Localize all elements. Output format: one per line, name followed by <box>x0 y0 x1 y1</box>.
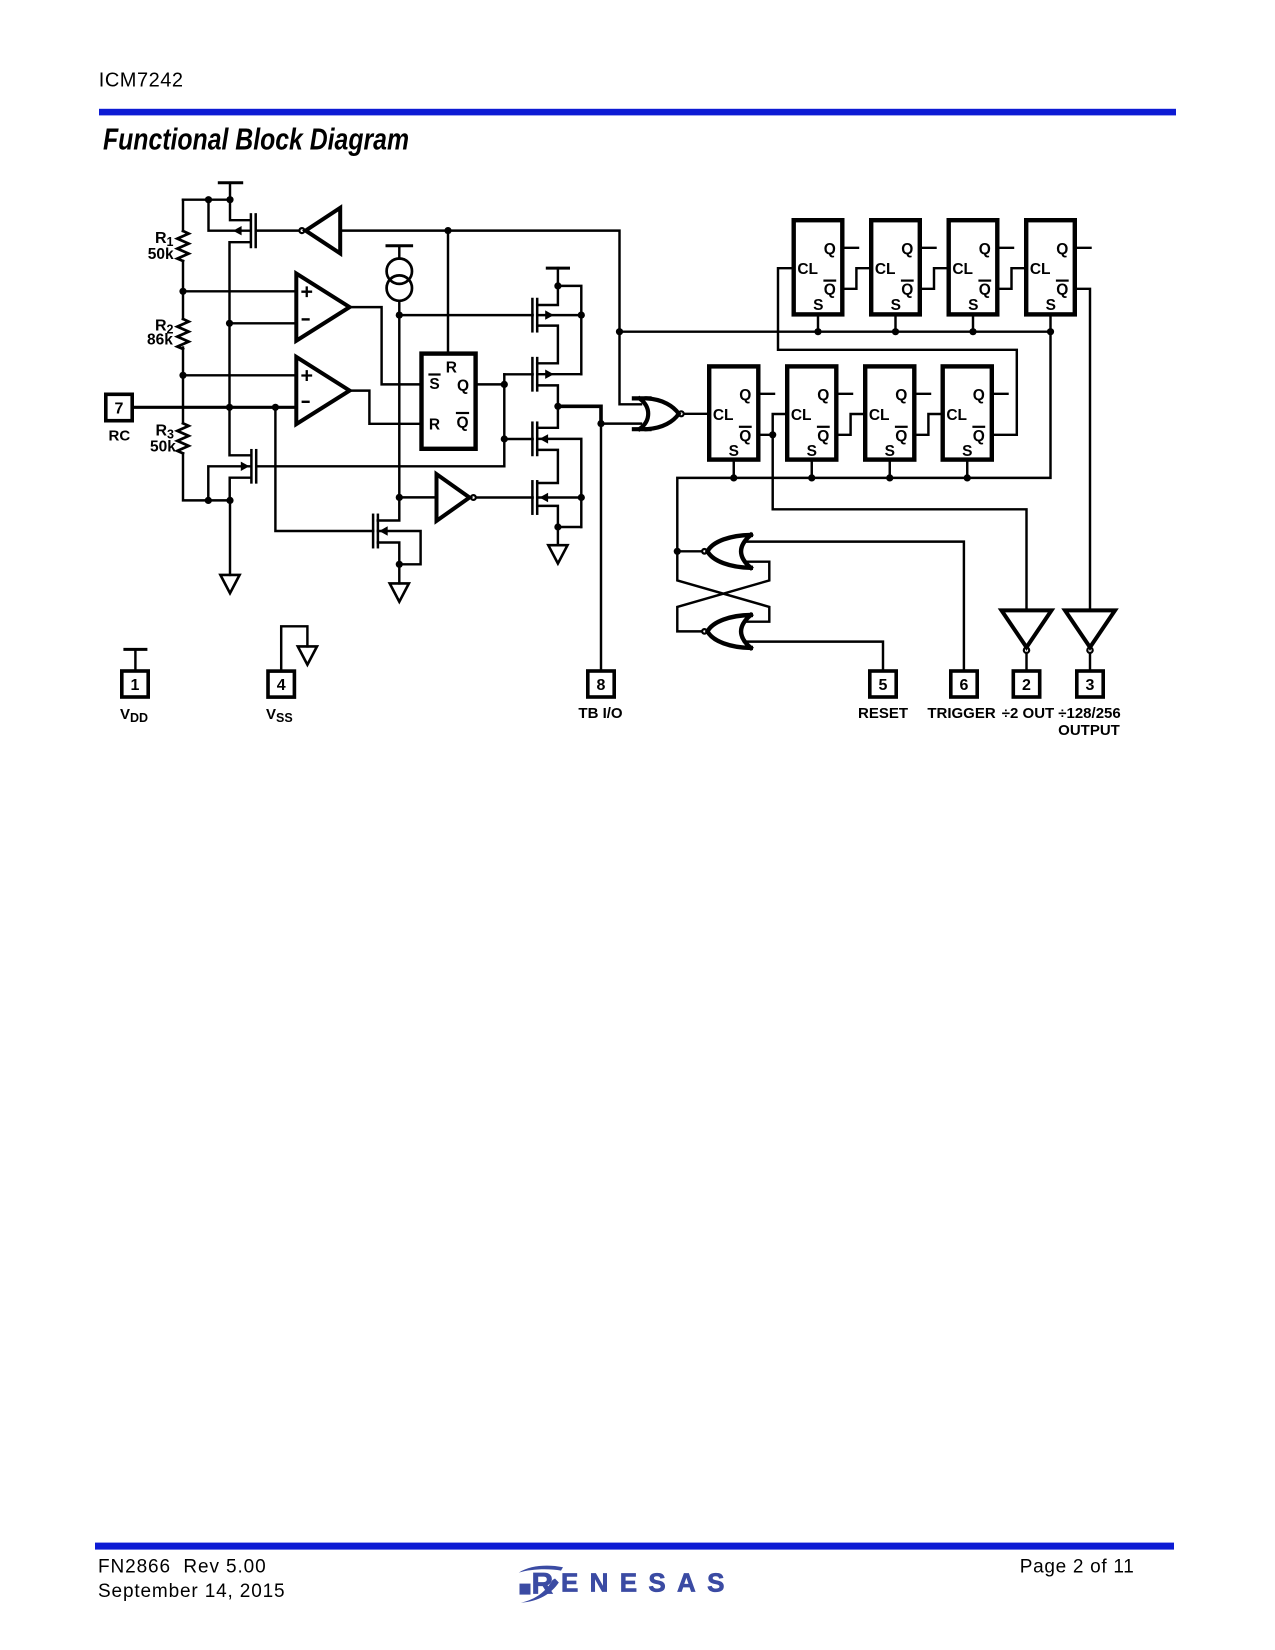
svg-text:1: 1 <box>131 677 140 694</box>
svg-text:Q: Q <box>895 387 907 404</box>
svg-text:50k: 50k <box>148 246 174 263</box>
inverter U3 body <box>437 474 470 521</box>
svg-text:RESET: RESET <box>858 705 908 722</box>
svg-text:4: 4 <box>277 677 286 694</box>
svg-text:R: R <box>429 417 440 434</box>
transistor QB bulk lead <box>537 373 581 375</box>
node RC junction at Q1 source <box>226 404 233 411</box>
svg-text:September 14, 2015: September 14, 2015 <box>98 1581 285 1602</box>
svg-text:3: 3 <box>1086 677 1095 694</box>
wire TRIGGER pin 6 to U5A input <box>746 542 964 670</box>
svg-text:DD: DD <box>130 711 148 725</box>
ground symbol G2 <box>390 583 409 601</box>
transistor Q3 channel line <box>250 450 253 482</box>
svg-text:RC: RC <box>109 428 131 445</box>
comparator U2 - symbol <box>303 401 309 403</box>
svg-text:S: S <box>885 443 895 460</box>
flip-flop FF4 (top row) box <box>1026 220 1075 314</box>
svg-text:5: 5 <box>879 677 888 694</box>
node R2-R3 junction <box>179 372 186 379</box>
wire RC node (pin7 to comparator U2 - input) <box>134 406 296 409</box>
wire U5B output cross-couple to U5A input <box>677 562 769 632</box>
supply bar V+ above output stack <box>547 268 568 286</box>
transistor Q1 drain lead <box>230 200 250 221</box>
svg-text:Q: Q <box>739 428 751 445</box>
wire FF4 Qbar to divide-by-128/256 inverter U8 <box>1077 289 1090 611</box>
svg-text:TRIGGER: TRIGGER <box>927 705 996 722</box>
wire FF2 S lead <box>894 317 896 332</box>
wire ground stem below Q3 <box>229 500 231 575</box>
wire timebase output (thick) <box>558 406 601 423</box>
supply bar V+ above current source I1 <box>387 246 412 259</box>
wire comparator U2 + input <box>183 374 296 376</box>
flip-flop FF2 (top row) Q-bar label <box>901 281 913 299</box>
svg-text:OUTPUT: OUTPUT <box>1058 722 1120 739</box>
transistor QA bulk lead <box>537 314 581 316</box>
wire U7 output to pin 2 <box>1025 654 1027 670</box>
transistor Q3 gate line <box>255 450 258 482</box>
wire TB to NOR U4 lower input <box>601 422 641 424</box>
node FF3 S junction <box>969 328 976 335</box>
svg-text:CL: CL <box>875 261 896 278</box>
transistor QD gate line <box>531 481 534 513</box>
inverter U6 bubble <box>299 228 304 233</box>
comparator U1 body <box>296 274 349 341</box>
node QD bulk junction <box>578 494 585 501</box>
transistor QC bulk lead <box>537 439 581 527</box>
wire FF8 S lead <box>966 462 968 478</box>
wire RC to transistor Q4 gate <box>275 407 373 531</box>
svg-text:R: R <box>156 423 168 440</box>
wire Q1 gate to inverter U6 <box>257 229 299 231</box>
comparator U2 body <box>296 357 349 424</box>
svg-text:÷128/256: ÷128/256 <box>1058 705 1120 722</box>
wire FF7 Qbar to FF8 CL <box>917 414 941 435</box>
wire comparator U1 - input <box>230 322 297 324</box>
wire R3 bottom lead <box>183 454 230 501</box>
comparator U2 + symbol <box>303 371 312 380</box>
flip-flop FF7 (bottom row) box <box>865 366 914 459</box>
pin 4 box <box>268 671 294 697</box>
wire FF4 Q stub <box>1077 247 1091 249</box>
wire R2 bottom lead <box>182 348 184 376</box>
flip-flop FF5 (bottom row) box <box>709 366 758 459</box>
node FF1 S junction <box>814 328 821 335</box>
ground symbol G1 <box>220 575 239 593</box>
pin 3 box <box>1077 671 1103 697</box>
transistor QC gate line <box>531 423 534 455</box>
comparator U1 - symbol <box>303 318 309 320</box>
wire FF1 S lead <box>817 317 819 332</box>
comparator U1 + symbol <box>303 288 312 297</box>
wire U5A output to set bus <box>677 550 701 552</box>
inverter U8 bubble <box>1087 648 1092 653</box>
node VDD stack junction <box>554 282 561 289</box>
svg-text:S: S <box>891 297 901 314</box>
transistor Q4 channel line <box>377 515 380 547</box>
pin 1 box <box>122 671 148 697</box>
svg-text:S: S <box>429 376 439 393</box>
node R3 bottom junction left <box>205 497 212 504</box>
svg-text:7: 7 <box>115 401 124 418</box>
svg-text:Q: Q <box>979 282 991 299</box>
svg-text:Q: Q <box>1056 282 1068 299</box>
wire VDD rail to R1 top <box>183 198 230 200</box>
svg-text:Q: Q <box>739 387 751 404</box>
inverter U7 (divide-by-2 output driver) <box>1002 610 1052 647</box>
node timebase wire junction <box>444 227 451 234</box>
svg-text:Functional Block Diagram: Functional Block Diagram <box>103 123 409 157</box>
wire FF8 Qbar feedback to FF1 CL <box>778 268 1017 435</box>
wire latch Q output <box>478 383 505 385</box>
wire FF3 S lead <box>972 317 974 332</box>
svg-text:86k: 86k <box>147 332 173 349</box>
NOR gate U5A (trigger latch) body <box>708 535 751 568</box>
wire I1 to transistor QA gate <box>399 314 532 316</box>
wire U8 output to pin 3 <box>1089 654 1091 670</box>
svg-text:50k: 50k <box>150 439 176 456</box>
svg-text:SS: SS <box>276 711 293 725</box>
node FF6 S junction <box>808 474 815 481</box>
wire FF5 Q stub <box>761 393 775 395</box>
flip-flop FF6 (bottom row) box <box>787 366 836 459</box>
svg-text:Q: Q <box>817 387 829 404</box>
svg-text:R: R <box>155 230 167 247</box>
flip-flop FF3 (top row) Q-bar label <box>979 281 991 299</box>
svg-text:Q: Q <box>895 428 907 445</box>
svg-text:Q: Q <box>456 415 468 432</box>
wire latch Q to QB gate <box>504 373 532 375</box>
svg-text:÷2 OUT: ÷2 OUT <box>1002 705 1054 722</box>
transistor QA bulk arrow <box>545 310 554 319</box>
transistor Q1 source lead <box>230 242 250 407</box>
NOR gate U4 body <box>634 398 679 429</box>
svg-text:S: S <box>729 443 739 460</box>
pin 1 VDD label <box>120 706 148 725</box>
svg-text:Q: Q <box>973 428 985 445</box>
svg-text:CL: CL <box>713 407 734 424</box>
svg-text:CL: CL <box>791 407 812 424</box>
svg-text:Page 2 of 11: Page 2 of 11 <box>1020 1557 1135 1578</box>
transistor QD source lead <box>537 506 558 527</box>
wire FF2 Q stub <box>922 247 936 249</box>
svg-text:CL: CL <box>1030 261 1051 278</box>
pin 2 box <box>1013 671 1039 697</box>
NOR gate U5B (trigger latch) output bubble <box>702 629 707 634</box>
svg-text:V: V <box>266 706 276 723</box>
wire R2 top lead <box>182 291 184 319</box>
svg-text:CL: CL <box>952 261 973 278</box>
supply bar V+ above pin 1 <box>125 649 146 669</box>
header blue rule <box>99 109 1176 116</box>
node U5A output junction <box>674 548 681 555</box>
wire latch Q vertical net <box>503 374 505 466</box>
wire FF8 Q stub <box>994 393 1008 395</box>
transistor Q4 gate line <box>372 515 375 547</box>
transistor QD channel line <box>536 481 539 513</box>
transistor Q4 bulk arrow <box>379 526 388 535</box>
node QD source-bulk junction <box>554 523 561 530</box>
wire FF6 Qbar to FF7 CL <box>839 414 864 435</box>
wire to inverter U3 input <box>399 496 436 498</box>
wire FF5 Qbar to FF6 CL <box>761 414 786 435</box>
flip-flop FF1 (top row) box <box>794 220 843 314</box>
pin 7 box <box>106 394 132 420</box>
resistor R2 <box>177 319 188 349</box>
current source I1 <box>387 259 412 301</box>
wire latch U2 top R input <box>447 231 449 352</box>
node Q4 source-bulk junction <box>396 561 403 568</box>
transistor QB channel line <box>536 358 539 390</box>
wire TB to pin 8 <box>600 424 602 670</box>
wire FF1 Qbar to FF2 CL <box>845 268 870 289</box>
node R1-R2 junction <box>179 288 186 295</box>
node FF2 S junction <box>892 328 899 335</box>
ground symbol G4 <box>298 646 317 664</box>
transistor QD bulk arrow <box>540 493 549 502</box>
wire pin 4 to ground symbol G4 <box>281 626 307 669</box>
svg-text:Q: Q <box>824 282 836 299</box>
ground symbol G3 <box>548 545 567 563</box>
flip-flop FF4 (top row) Q-bar label <box>1056 281 1068 299</box>
wire FF4 S lead <box>1049 317 1051 332</box>
svg-text:Q: Q <box>901 282 913 299</box>
node timebase S-bus junction <box>616 328 623 335</box>
wire R1 top lead <box>182 200 184 231</box>
flip-flop FF6 (bottom row) Q-bar label <box>817 427 829 445</box>
NOR gate U5A (trigger latch) output bubble <box>702 549 707 554</box>
resistor R2 label <box>147 318 174 349</box>
svg-text:FN2866 Rev 5.00: FN2866 Rev 5.00 <box>98 1557 267 1578</box>
wire NOR U4 output to FF B1 clock <box>685 413 707 415</box>
node junction dot right <box>226 196 233 203</box>
transistor QD bulk lead <box>537 496 581 498</box>
node R3 bottom junction right <box>226 497 233 504</box>
node QA bulk junction <box>578 312 585 319</box>
wire comparator U2 output to latch R input <box>350 391 420 424</box>
transistor QC source to QD drain <box>537 450 558 483</box>
wire latch Q to QC gate <box>504 438 532 440</box>
inverter U8 (divide-by-128/256 output driver) <box>1065 610 1115 647</box>
resistor R3 <box>177 423 188 453</box>
flip-flop FF1 (top row) Q-bar label <box>824 281 836 299</box>
wire R3 top lead <box>182 375 184 423</box>
wire FF3 Qbar to FF4 CL <box>1000 268 1025 289</box>
wire ground stem below stack <box>557 527 559 545</box>
wire R1 bottom lead <box>182 261 184 291</box>
transistor Q3 bulk lead <box>208 466 250 500</box>
transistor QC channel line <box>536 423 539 455</box>
transistor Q1 channel line <box>250 214 253 247</box>
wire FF1 Q stub <box>845 247 859 249</box>
wire FF3 Q stub <box>1000 247 1014 249</box>
node junction dot left <box>205 196 212 203</box>
transistor Q4 bulk lead <box>378 531 421 564</box>
node FF4 S junction <box>1047 328 1054 335</box>
transistor Q1 bulk arrow <box>233 226 242 235</box>
wire comparator U1 output to latch S input <box>350 307 420 384</box>
transistor Q1 bulk lead <box>209 200 250 231</box>
wire ground stem below Q4 <box>398 564 400 583</box>
wire inverter U3 to QD gate <box>477 496 533 498</box>
transistor Q1 gate line <box>254 214 257 247</box>
transistor QB bulk arrow <box>545 370 554 379</box>
transistor QC bulk arrow <box>540 434 549 443</box>
svg-text:Q: Q <box>457 378 469 395</box>
svg-text:Q: Q <box>824 241 836 258</box>
latch U2 Q-bar label <box>456 413 468 432</box>
node FF5 Qbar divide-by-2 tap <box>769 431 776 438</box>
svg-text:ENESAS: ENESAS <box>561 1568 736 1598</box>
svg-text:Q: Q <box>979 241 991 258</box>
wire U5A output cross-couple to U5B input <box>677 551 769 621</box>
wire set bus link to bottom row <box>677 332 1050 552</box>
flip-flop FF5 (bottom row) Q-bar label <box>739 427 751 445</box>
resistor R1 label <box>148 230 174 263</box>
wire NMOS bulk rail bottom <box>558 526 581 528</box>
svg-text:Q: Q <box>1056 241 1068 258</box>
resistor R3 label <box>150 423 176 456</box>
transistor QA drain lead <box>537 286 558 305</box>
node inverter U3 input junction <box>396 494 403 501</box>
wire FF5 Qbar to divide-by-2 inverter U7 <box>773 435 1027 611</box>
svg-text:R: R <box>446 360 457 377</box>
pin 4 VSS label <box>266 706 293 725</box>
flip-flop FF7 (bottom row) Q-bar label <box>895 427 907 445</box>
wire inverter U6 input from timebase net <box>340 231 641 405</box>
svg-text:CL: CL <box>797 261 818 278</box>
wire VDD to PMOS bulk rail <box>558 286 581 374</box>
svg-text:S: S <box>807 443 817 460</box>
wire FF5 S lead <box>733 462 735 478</box>
Renesas logo <box>519 1566 736 1603</box>
latch U2 box <box>422 354 476 449</box>
footer blue rule <box>95 1543 1174 1550</box>
transistor QA channel line <box>536 299 539 331</box>
transistor Q4 source lead <box>378 543 399 565</box>
wire RESET pin 5 to U5B input <box>746 642 883 670</box>
flip-flop FF8 (bottom row) Q-bar label <box>973 427 985 445</box>
inverter U6 body <box>306 208 341 254</box>
inverter U7 bubble <box>1024 648 1029 653</box>
svg-text:Q: Q <box>901 241 913 258</box>
supply bar V+ above Q1 <box>219 183 241 200</box>
wire comparator U1 + input <box>183 290 296 292</box>
svg-text:V: V <box>120 706 130 723</box>
transistor QC drain lead <box>537 406 558 428</box>
svg-text:CL: CL <box>869 407 890 424</box>
inverter U3 bubble <box>471 495 476 500</box>
wire QB source to output node <box>537 385 558 406</box>
wire I1 output down to M4 drain <box>398 315 400 497</box>
node U1 - input junction <box>226 320 233 327</box>
transistor QB gate line <box>531 358 534 390</box>
NOR gate U5B (trigger latch) body <box>708 615 751 648</box>
wire set bus (top row) <box>620 330 1051 332</box>
svg-text:8: 8 <box>597 677 606 694</box>
NOR gate U4 bubble <box>679 411 684 416</box>
wire FF2 Qbar to FF3 CL <box>922 268 947 289</box>
flip-flop FF8 (bottom row) box <box>943 366 992 459</box>
latch U2 S-bar label <box>429 375 439 394</box>
node FF5 S junction <box>730 474 737 481</box>
transistor Q3 drain lead <box>230 407 251 455</box>
transistor Q3 source lead <box>230 478 251 501</box>
flip-flop FF3 (top row) box <box>949 220 998 314</box>
pin 5 box <box>870 671 896 697</box>
svg-text:Q: Q <box>817 428 829 445</box>
resistor R1 <box>177 231 188 261</box>
wire FF6 S lead <box>811 462 813 478</box>
svg-text:ICM7242: ICM7242 <box>99 70 184 92</box>
svg-text:S: S <box>1046 297 1056 314</box>
svg-text:S: S <box>962 443 972 460</box>
pin 6 box <box>951 671 977 697</box>
node FF7 S junction <box>886 474 893 481</box>
wire FF6 Q stub <box>839 393 853 395</box>
wire FF7 S lead <box>889 462 891 478</box>
svg-text:S: S <box>813 297 823 314</box>
node latch Q net at QC gate <box>501 435 508 442</box>
transistor Q3 bulk arrow <box>241 462 250 471</box>
svg-text:TB I/O: TB I/O <box>578 705 622 722</box>
svg-text:Q: Q <box>973 387 985 404</box>
pin 8 box <box>588 671 614 697</box>
transistor QA gate line <box>531 299 534 331</box>
wire Q3 gate / latch Q net lower branch <box>257 465 504 467</box>
svg-text:CL: CL <box>946 407 967 424</box>
svg-text:S: S <box>968 297 978 314</box>
svg-text:2: 2 <box>1022 677 1031 694</box>
wire FF7 Q stub <box>917 393 931 395</box>
transistor QA source to QB drain <box>537 326 558 364</box>
node TB output junction <box>597 420 604 427</box>
wire current source output <box>398 301 400 315</box>
node output stack midpoint <box>554 403 561 410</box>
node RC junction at Q4 gate branch <box>272 404 279 411</box>
node latch Q junction <box>501 381 508 388</box>
flip-flop FF2 (top row) box <box>871 220 920 314</box>
svg-text:6: 6 <box>960 677 969 694</box>
node FF8 S junction <box>964 474 971 481</box>
node current source output junction <box>396 312 403 319</box>
wire down to transistor Q4 drain <box>378 497 400 520</box>
